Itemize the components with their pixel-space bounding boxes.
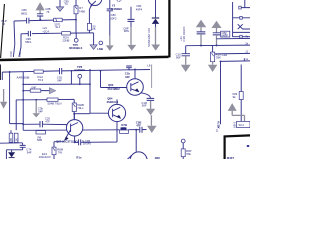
transistor Q84 (108, 104, 125, 121)
wire Q87 collector (73, 114, 75, 120)
diode D8 (152, 17, 159, 19)
wire to Q8x (135, 130, 137, 152)
resistor R8 (36, 131, 45, 134)
wire diode chain (155, 0, 157, 18)
pin box SC1 (237, 121, 250, 127)
transistor Q82 (88, 0, 102, 6)
ground (93, 33, 95, 45)
blue dash (247, 145, 249, 147)
wire pin 1J (215, 52, 250, 55)
inductor L8 (151, 65, 153, 89)
svg-text:06349BLX: 06349BLX (69, 46, 83, 50)
node junction (73, 113, 75, 115)
svg-text:47F: 47F (45, 119, 50, 123)
capacitor C8b (128, 19, 135, 21)
wire main top (14, 20, 76, 21)
wire C8b chain (130, 7, 132, 19)
svg-text:LNB: LNB (97, 47, 103, 51)
resistor R504 (72, 103, 76, 112)
diode bottom (11, 150, 13, 152)
node junction (135, 129, 137, 131)
capacitor C1R (147, 98, 155, 100)
transistor Q87 (66, 120, 82, 136)
svg-text:SLJ: SLJ (55, 25, 60, 29)
wire y38.6 to connector (217, 37, 251, 39)
svg-text:4B: 4B (9, 138, 13, 142)
svg-text:76.3: 76.3 (38, 78, 44, 82)
wire x90 vertical (90, 70, 108, 113)
capacitor C10 (182, 54, 191, 56)
capacitor C1R chain (141, 93, 151, 98)
svg-text:R10: R10 (9, 51, 13, 57)
resistor R7 (75, 0, 77, 6)
svg-text:504B 79LN: 504B 79LN (48, 101, 62, 105)
test point TP0 (75, 33, 77, 38)
svg-text:7W: 7W (58, 150, 63, 154)
page border right (168, 0, 170, 57)
page border corner (225, 135, 250, 159)
wire y99.7 (16, 98, 74, 101)
wire branch (70, 71, 72, 85)
svg-text:SC1: SC1 (239, 123, 245, 127)
svg-text:47F: 47F (136, 124, 141, 128)
wire y90.6 branch (23, 90, 49, 92)
wire Q84 emitter (116, 122, 118, 130)
node junction (9, 71, 11, 73)
ground arrow (109, 36, 111, 46)
svg-text:04F: 04F (38, 110, 43, 114)
wire Q83 base vertical (101, 71, 127, 88)
wire Q87 emitter (74, 136, 76, 142)
connector bus vertical (232, 2, 234, 37)
svg-text:25: 25 (92, 27, 96, 31)
page border bottom (0, 57, 169, 60)
power arrow up (36, 2, 45, 10)
svg-text:1K0F0: 1K0F0 (83, 142, 92, 146)
resistor R8M (53, 142, 55, 147)
wire y113.7 (74, 113, 90, 115)
resistor 305 (87, 23, 91, 30)
capacitor C1 (197, 32, 206, 34)
svg-text:20F2: 20F2 (110, 16, 117, 20)
wire emitter row (54, 130, 117, 142)
resistor left pair B (14, 133, 18, 142)
svg-text:100uF/2V: 100uF/2V (39, 155, 51, 159)
wire y84 (23, 83, 90, 85)
resistor 3071 (54, 18, 63, 22)
wire Q83 collector (134, 70, 136, 79)
svg-text:7486: 7486 (79, 9, 86, 13)
wire x74 vertical (73, 99, 75, 121)
svg-text:R1x: R1x (76, 156, 82, 159)
svg-text:XB7A: XB7A (216, 121, 220, 128)
grey arrow left (3, 89, 5, 102)
svg-text:XB-3: XB-3 (233, 121, 237, 128)
ground arrow (146, 109, 155, 115)
svg-text:04F: 04F (57, 79, 62, 83)
test point R0P (181, 139, 185, 143)
node junction (39, 19, 41, 21)
wire right vertical (240, 65, 242, 122)
SECTION: top-left schematic page (0, 0, 169, 60)
ground arrow (130, 27, 132, 45)
svg-text:56B: 56B (37, 138, 42, 142)
svg-text:2K: 2K (14, 138, 18, 142)
capacitor C74 (22, 143, 24, 145)
ground arrow (181, 65, 191, 72)
wire drop left (185, 46, 187, 54)
wire left vertical (13, 21, 14, 57)
ground arrow (155, 27, 157, 45)
capacitor E-12B (79, 139, 81, 145)
transistor Q8x (130, 152, 147, 169)
power arrow up (228, 103, 237, 111)
wire corner box (6, 150, 22, 159)
SECTION: top-right connector page (215, 0, 250, 129)
wire y124 (10, 72, 24, 124)
svg-text:"L2": "L2" (117, 0, 122, 3)
page border left (1, 4, 5, 58)
long vertical line (220, 61, 222, 124)
capacitor C80 (107, 9, 113, 11)
svg-text:4R8: 4R8 (155, 156, 161, 159)
wire mid horizontal (21, 32, 94, 35)
wire top long (2, 70, 150, 73)
connector pin 4 (233, 36, 250, 38)
wire left stub (1, 72, 3, 80)
svg-text:49F4: 49F4 (136, 7, 143, 11)
resistor 504B (47, 98, 58, 101)
svg-text:SUNKUAF 104: SUNKUAF 104 (147, 28, 151, 47)
resistor R1d (34, 70, 43, 73)
wire Q84 collector (116, 99, 118, 104)
antenna X symbol (238, 24, 250, 29)
svg-text:L8: L8 (147, 63, 151, 67)
wire resistor bottoms (11, 141, 16, 144)
node junctions top wire (71, 70, 73, 72)
connector top bracket (240, 0, 250, 8)
svg-text:2): 2) (216, 129, 219, 133)
wire base Q87 (23, 123, 67, 125)
connector pin 3 (233, 31, 250, 33)
wire y45.5 to connector (186, 44, 250, 47)
svg-text:C1R 04UF0: C1R 04UF0 (182, 26, 186, 41)
svg-text:76: 76 (46, 10, 50, 14)
capacitor C8T (213, 33, 221, 35)
svg-text:04F: 04F (31, 85, 36, 89)
resistor left pair A (9, 133, 13, 142)
wire left bottom (0, 142, 23, 144)
svg-text:C9x: C9x (18, 51, 22, 57)
capacitor series y130 (140, 127, 142, 133)
SECTION: right margin components (176, 20, 250, 72)
page border left segment (0, 65, 2, 81)
capacitor 04F up (128, 68, 130, 70)
wire stubs resistors top (10, 130, 12, 133)
signal arrow right (49, 88, 55, 94)
power arrow up 1 (196, 20, 206, 28)
connector pin 2 (233, 17, 250, 19)
capacitor C98 (28, 31, 30, 37)
ground arrow (208, 65, 217, 72)
svg-text:N4N0B0: N4N0B0 (111, 7, 122, 11)
svg-text:56F: 56F (142, 104, 147, 108)
capacitor C92 (60, 68, 62, 74)
wire Y2 chain (109, 0, 111, 9)
label box C8T (221, 31, 230, 37)
grey arrow C3b (35, 99, 37, 101)
wire second vertical (19, 34, 21, 57)
svg-text:39K: 39K (216, 56, 221, 60)
ground top (59, 0, 61, 7)
wire bottom y130 (23, 129, 146, 132)
svg-text:2SC38D2: 2SC38D2 (108, 87, 121, 91)
svg-text:M4X7: M4X7 (227, 156, 235, 159)
svg-text:+2C4: +2C4 (42, 29, 49, 33)
svg-text:56k: 56k (186, 152, 191, 156)
SECTION: lower-left schematic page (0, 63, 192, 169)
capacitor C88 (37, 14, 43, 16)
svg-text:74: 74 (64, 2, 68, 6)
svg-text:04F: 04F (125, 75, 130, 79)
svg-text:22NB: 22NB (62, 39, 69, 43)
resistor R19 (212, 45, 214, 52)
power arrow up 2 (212, 21, 222, 28)
svg-text:94F: 94F (27, 151, 32, 155)
svg-text:90F: 90F (176, 55, 181, 59)
test point LNB (99, 41, 103, 45)
svg-text:7K: 7K (2, 22, 6, 26)
resistor XB9 (239, 92, 243, 100)
component dark blob (121, 127, 127, 130)
transistor Q83 (127, 79, 144, 96)
wire pin 1x (221, 60, 251, 63)
resistor blob box (120, 130, 129, 133)
svg-text:79Lx: 79Lx (77, 106, 84, 110)
svg-text:AAP4E0: AAP4E0 (74, 68, 85, 72)
grey arrow lower (150, 115, 152, 126)
SECTION: bottom-right page corner (216, 129, 250, 160)
svg-text:56F1: 56F1 (25, 40, 32, 44)
svg-text:2SB8 EB: 2SB8 EB (107, 100, 119, 104)
resistor R2H (62, 32, 71, 35)
wire x23 vertical (22, 72, 24, 130)
svg-text:6801: 6801 (21, 11, 28, 15)
resistor 04F branch (30, 89, 41, 92)
capacitor C20 series (40, 121, 42, 127)
svg-text:98N: 98N (124, 29, 129, 33)
capacitor C86 (27, 18, 29, 24)
